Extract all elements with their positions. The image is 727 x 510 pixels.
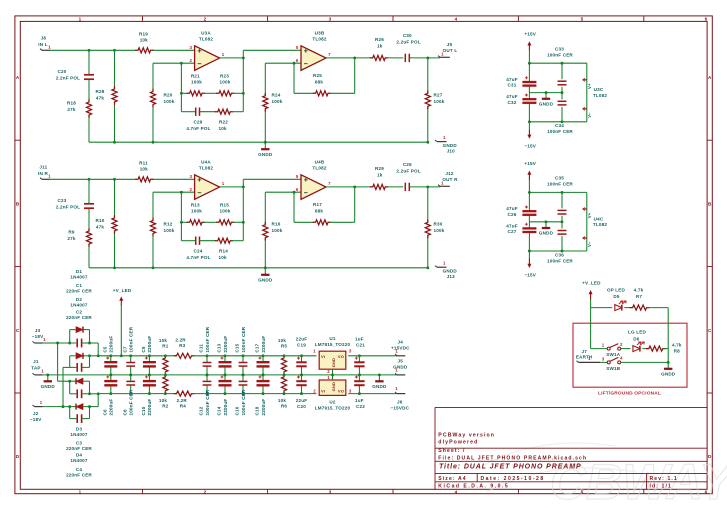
- svg-text:2.2uF POL: 2.2uF POL: [396, 169, 420, 174]
- svg-text:C36: C36: [555, 252, 564, 257]
- svg-text:C14: C14: [217, 406, 222, 415]
- svg-text:100k: 100k: [272, 228, 283, 233]
- svg-text:100nF CER: 100nF CER: [205, 326, 210, 352]
- svg-text:220nF CER: 220nF CER: [66, 315, 92, 320]
- svg-text:C1: C1: [76, 283, 82, 288]
- svg-text:GNDD: GNDD: [41, 384, 56, 389]
- svg-text:R23: R23: [220, 74, 229, 79]
- svg-text:R17: R17: [313, 202, 322, 207]
- svg-text:R16: R16: [272, 222, 281, 227]
- svg-text:2200uF: 2200uF: [261, 336, 266, 353]
- svg-text:5: 5: [296, 45, 299, 50]
- svg-text:2.2R: 2.2R: [175, 337, 186, 342]
- svg-text:TL082: TL082: [593, 93, 607, 98]
- svg-text:R14: R14: [219, 249, 228, 254]
- svg-text:U3B: U3B: [315, 30, 325, 35]
- svg-text:J3: J3: [35, 328, 41, 333]
- svg-text:100k: 100k: [164, 99, 175, 104]
- svg-text:4.7nF POL: 4.7nF POL: [186, 255, 210, 260]
- svg-text:+15V: +15V: [524, 32, 536, 37]
- svg-text:100k: 100k: [434, 99, 445, 104]
- svg-text:100nF CER: 100nF CER: [547, 182, 573, 187]
- svg-text:4: 4: [455, 490, 458, 495]
- svg-text:7: 7: [328, 52, 331, 57]
- svg-text:100nF CER: 100nF CER: [129, 389, 134, 415]
- svg-text:3: 3: [189, 174, 192, 179]
- svg-text:4.7nF POL: 4.7nF POL: [186, 126, 210, 131]
- svg-text:J10: J10: [447, 148, 455, 153]
- svg-text:GNDD: GNDD: [258, 277, 273, 282]
- svg-text:1uF: 1uF: [355, 398, 364, 403]
- svg-text:C9: C9: [141, 346, 146, 352]
- svg-text:C29: C29: [194, 120, 203, 125]
- svg-text:V−: V−: [587, 112, 592, 118]
- svg-text:J9: J9: [447, 42, 453, 47]
- svg-text:U3A: U3A: [201, 30, 211, 35]
- svg-text:IN L: IN L: [38, 42, 47, 47]
- svg-text:C8: C8: [122, 409, 127, 415]
- svg-text:C6: C6: [102, 409, 107, 415]
- svg-text:LG LED: LG LED: [628, 330, 646, 335]
- svg-text:−18V: −18V: [30, 417, 42, 422]
- svg-text:47uF: 47uF: [506, 223, 517, 228]
- svg-text:1: 1: [79, 16, 82, 21]
- svg-text:J5: J5: [398, 359, 404, 364]
- svg-text:100nF CER: 100nF CER: [547, 52, 573, 57]
- svg-text:C13: C13: [217, 343, 222, 352]
- svg-text:C: C: [708, 328, 712, 333]
- svg-text:D6: D6: [633, 336, 639, 341]
- svg-text:VI: VI: [321, 354, 325, 359]
- svg-text:3: 3: [329, 16, 332, 21]
- svg-text:R29: R29: [375, 166, 384, 171]
- svg-text:R7: R7: [636, 294, 642, 299]
- svg-text:R5: R5: [281, 344, 287, 349]
- svg-text:3: 3: [602, 356, 605, 361]
- svg-text:J7: J7: [581, 349, 587, 354]
- svg-text:2200uF: 2200uF: [109, 336, 114, 353]
- svg-text:10k: 10k: [140, 38, 148, 43]
- svg-text:C4: C4: [76, 467, 82, 472]
- svg-text:47k: 47k: [96, 96, 104, 101]
- svg-text:J2: J2: [33, 411, 39, 416]
- svg-text:GNDD: GNDD: [539, 101, 554, 106]
- svg-text:1: 1: [588, 356, 591, 361]
- svg-text:Rev: 1.1: Rev: 1.1: [650, 476, 678, 482]
- svg-text:U1: U1: [329, 336, 335, 341]
- svg-text:R10: R10: [96, 218, 105, 223]
- svg-text:3: 3: [349, 349, 352, 354]
- svg-text:R8: R8: [674, 348, 680, 353]
- svg-text:VI: VI: [321, 388, 325, 393]
- svg-text:OP LED: OP LED: [607, 288, 626, 293]
- svg-text:J13: J13: [447, 274, 455, 279]
- svg-text:R26: R26: [375, 37, 384, 42]
- svg-text:47k: 47k: [96, 225, 104, 230]
- svg-text:100nF CER: 100nF CER: [547, 129, 573, 134]
- svg-text:22uF: 22uF: [296, 398, 307, 403]
- svg-text:2: 2: [204, 16, 207, 21]
- svg-text:V−: V−: [587, 241, 592, 247]
- svg-text:SW1A: SW1A: [606, 352, 620, 357]
- svg-text:R13: R13: [191, 203, 200, 208]
- svg-text:R1: R1: [162, 344, 168, 349]
- svg-text:C23: C23: [58, 198, 67, 203]
- svg-text:C12: C12: [199, 406, 204, 415]
- svg-text:1: 1: [79, 490, 82, 495]
- svg-text:J1: J1: [33, 359, 39, 364]
- svg-text:C: C: [16, 328, 20, 333]
- svg-text:File: DUAL JFET PHONO PREAMP.k: File: DUAL JFET PHONO PREAMP.kicad.sch: [438, 455, 587, 461]
- svg-text:1: 1: [40, 400, 43, 405]
- svg-text:GND: GND: [331, 382, 336, 391]
- svg-text:+V_LED: +V_LED: [113, 288, 132, 293]
- svg-text:100nF CER: 100nF CER: [205, 389, 210, 415]
- svg-text:J6: J6: [397, 399, 403, 404]
- svg-text:VO: VO: [338, 354, 344, 359]
- svg-text:R15: R15: [220, 203, 229, 208]
- svg-text:VO: VO: [338, 388, 344, 393]
- svg-text:+15V: +15V: [524, 161, 536, 166]
- svg-text:Sheet: /: Sheet: /: [438, 448, 465, 454]
- svg-text:22uF: 22uF: [296, 337, 307, 342]
- svg-text:5: 5: [581, 16, 584, 21]
- svg-text:6: 6: [296, 58, 299, 63]
- svg-text:R19: R19: [139, 32, 148, 37]
- svg-text:4.7k: 4.7k: [634, 288, 644, 293]
- svg-text:SW1B: SW1B: [606, 366, 620, 371]
- svg-text:C16: C16: [235, 406, 240, 415]
- svg-text:10k: 10k: [218, 255, 226, 260]
- svg-text:100k: 100k: [220, 80, 231, 85]
- svg-text:4: 4: [620, 356, 623, 361]
- svg-text:1: 1: [222, 52, 225, 57]
- svg-text:1k: 1k: [377, 173, 383, 178]
- svg-text:68k: 68k: [315, 208, 323, 213]
- svg-text:D5: D5: [613, 294, 619, 299]
- svg-text:TAP: TAP: [31, 365, 40, 370]
- svg-text:1: 1: [602, 343, 605, 348]
- svg-text:A: A: [708, 75, 712, 80]
- svg-text:R27: R27: [434, 93, 443, 98]
- svg-text:1: 1: [327, 375, 330, 380]
- svg-text:OUT R: OUT R: [442, 177, 458, 182]
- svg-text:C35: C35: [555, 176, 564, 181]
- svg-text:1: 1: [443, 261, 446, 266]
- svg-text:100nF CER: 100nF CER: [241, 389, 246, 415]
- svg-text:2.2uF POL: 2.2uF POL: [396, 40, 420, 45]
- svg-text:2.2R: 2.2R: [176, 398, 187, 403]
- svg-text:100k: 100k: [220, 209, 231, 214]
- svg-text:2200uF: 2200uF: [223, 399, 228, 416]
- svg-text:C26: C26: [508, 212, 517, 217]
- svg-text:7: 7: [328, 181, 331, 186]
- svg-text:4.7k: 4.7k: [672, 343, 682, 348]
- svg-text:GNDD: GNDD: [539, 231, 554, 236]
- svg-text:1: 1: [222, 181, 225, 186]
- svg-text:2200uF: 2200uF: [223, 336, 228, 353]
- svg-text:R20: R20: [164, 93, 173, 98]
- svg-text:B: B: [708, 201, 712, 206]
- svg-text:100nF CER: 100nF CER: [241, 326, 246, 352]
- svg-text:D3: D3: [76, 427, 82, 432]
- svg-text:GNDD: GNDD: [443, 268, 458, 273]
- svg-text:C17: C17: [255, 343, 260, 352]
- svg-text:R9: R9: [68, 230, 74, 235]
- svg-text:C10: C10: [141, 406, 146, 415]
- svg-text:TL082: TL082: [312, 166, 326, 171]
- svg-text:1N4007: 1N4007: [70, 303, 87, 308]
- svg-text:A: A: [16, 75, 20, 80]
- svg-text:1: 1: [443, 135, 446, 140]
- svg-text:TL082: TL082: [312, 37, 326, 42]
- svg-text:GND: GND: [331, 358, 336, 367]
- svg-text:U2: U2: [329, 400, 335, 405]
- svg-text:U3C: U3C: [594, 87, 604, 92]
- svg-text:1: 1: [48, 44, 51, 49]
- svg-text:R25: R25: [313, 73, 322, 78]
- svg-text:1: 1: [43, 337, 46, 342]
- svg-text:U4A: U4A: [201, 159, 211, 164]
- svg-text:10k: 10k: [140, 167, 148, 172]
- svg-text:2200uF: 2200uF: [147, 399, 152, 416]
- svg-text:B: B: [16, 201, 20, 206]
- svg-text:Date: 2025-10-28: Date: 2025-10-28: [481, 476, 545, 482]
- svg-text:R21: R21: [191, 74, 200, 79]
- svg-text:100nF CER: 100nF CER: [547, 258, 573, 263]
- svg-text:Size: A4: Size: A4: [438, 476, 466, 482]
- svg-text:2200uF: 2200uF: [109, 399, 114, 416]
- svg-text:47uF: 47uF: [506, 206, 517, 211]
- svg-text:100k: 100k: [164, 228, 175, 233]
- svg-text:C19: C19: [297, 343, 306, 348]
- svg-text:R22: R22: [219, 120, 228, 125]
- svg-text:−15V: −15V: [524, 273, 536, 278]
- svg-text:LIFT/GROUND OPCIONAL: LIFT/GROUND OPCIONAL: [598, 391, 661, 397]
- svg-text:100k: 100k: [434, 228, 445, 233]
- svg-text:V+: V+: [587, 83, 592, 89]
- svg-text:1uF: 1uF: [355, 337, 364, 342]
- svg-text:C31: C31: [508, 83, 517, 88]
- svg-text:D: D: [708, 454, 712, 459]
- svg-text:J4: J4: [398, 340, 404, 345]
- svg-text:1: 1: [41, 369, 44, 374]
- svg-text:C21: C21: [356, 343, 365, 348]
- svg-text:R2: R2: [162, 404, 168, 409]
- svg-text:TL082: TL082: [199, 166, 213, 171]
- svg-text:C33: C33: [555, 46, 564, 51]
- svg-text:R18: R18: [67, 101, 76, 106]
- svg-text:C2: C2: [76, 309, 82, 314]
- svg-text:−15VDC: −15VDC: [391, 405, 410, 410]
- svg-text:GNDD: GNDD: [393, 365, 408, 370]
- svg-text:27k: 27k: [67, 236, 75, 241]
- svg-text:4: 4: [455, 16, 458, 21]
- svg-text:100k: 100k: [191, 80, 202, 85]
- svg-text:LM7815_TO220: LM7815_TO220: [315, 342, 351, 347]
- svg-text:R6: R6: [281, 404, 287, 409]
- svg-text:5: 5: [581, 490, 584, 495]
- svg-text:C3: C3: [76, 440, 82, 445]
- svg-text:D4: D4: [76, 453, 82, 458]
- svg-text:C7: C7: [122, 346, 127, 352]
- svg-text:10k: 10k: [278, 398, 286, 403]
- svg-text:U4B: U4B: [315, 159, 325, 164]
- svg-text:100k: 100k: [191, 209, 202, 214]
- svg-text:V+: V+: [587, 212, 592, 218]
- svg-text:3: 3: [349, 389, 352, 394]
- svg-text:68k: 68k: [315, 79, 323, 84]
- svg-text:10k: 10k: [159, 338, 167, 343]
- svg-text:1N4007: 1N4007: [70, 458, 87, 463]
- svg-text:C32: C32: [508, 100, 517, 105]
- svg-text:R3: R3: [179, 343, 185, 348]
- svg-text:100nF CER: 100nF CER: [129, 326, 134, 352]
- svg-text:dIyPowered: dIyPowered: [438, 440, 478, 446]
- svg-text:5: 5: [296, 174, 299, 179]
- svg-text:KiCad E.D.A. 9.0.5: KiCad E.D.A. 9.0.5: [438, 484, 509, 490]
- svg-text:R24: R24: [272, 93, 281, 98]
- svg-text:−18V: −18V: [32, 334, 44, 339]
- svg-text:D2: D2: [76, 297, 82, 302]
- svg-text:GNDD: GNDD: [258, 152, 273, 157]
- svg-text:C11: C11: [199, 344, 204, 353]
- svg-text:R28: R28: [96, 89, 105, 94]
- svg-text:C15: C15: [235, 343, 240, 352]
- svg-text:2: 2: [327, 369, 330, 374]
- svg-text:2200uF: 2200uF: [147, 336, 152, 353]
- svg-text:220nF CER: 220nF CER: [66, 288, 92, 293]
- svg-text:LM7915_TO220: LM7915_TO220: [315, 406, 351, 411]
- svg-text:D: D: [16, 454, 20, 459]
- svg-text:2.2nF POL: 2.2nF POL: [56, 205, 80, 210]
- svg-text:U4C: U4C: [594, 216, 604, 221]
- svg-text:J12: J12: [445, 171, 453, 176]
- svg-text:Id: 1/1: Id: 1/1: [650, 484, 672, 490]
- svg-text:2: 2: [189, 187, 192, 192]
- svg-text:2200uF: 2200uF: [261, 399, 266, 416]
- svg-text:C22: C22: [356, 404, 365, 409]
- svg-text:J11: J11: [39, 164, 47, 169]
- svg-text:GNDD: GNDD: [372, 384, 387, 389]
- svg-text:C30: C30: [403, 33, 412, 38]
- svg-text:47uF: 47uF: [506, 77, 517, 82]
- svg-text:PCBWay version: PCBWay version: [438, 433, 495, 439]
- svg-text:1: 1: [395, 386, 398, 391]
- svg-text:R4: R4: [180, 403, 186, 408]
- svg-text:GNDD: GNDD: [661, 371, 676, 376]
- svg-text:IN R: IN R: [38, 171, 48, 176]
- svg-text:R11: R11: [139, 161, 148, 166]
- svg-text:Title: DUAL JFET PHONO PREAMP: Title: DUAL JFET PHONO PREAMP: [439, 463, 582, 470]
- svg-text:1k: 1k: [377, 44, 383, 49]
- svg-text:D1: D1: [76, 269, 82, 274]
- svg-text:2.2nF POL: 2.2nF POL: [56, 76, 80, 81]
- svg-text:C25: C25: [403, 162, 412, 167]
- svg-text:47uF: 47uF: [506, 94, 517, 99]
- svg-text:10k: 10k: [218, 126, 226, 131]
- svg-text:10k: 10k: [159, 398, 167, 403]
- svg-text:2: 2: [620, 342, 623, 347]
- svg-text:2: 2: [313, 389, 316, 394]
- svg-text:C18: C18: [255, 406, 260, 415]
- svg-text:R30: R30: [434, 222, 443, 227]
- svg-text:C20: C20: [58, 69, 67, 74]
- svg-text:1: 1: [313, 349, 316, 354]
- svg-text:2: 2: [189, 58, 192, 63]
- svg-text:R12: R12: [164, 222, 173, 227]
- svg-text:1: 1: [48, 173, 51, 178]
- svg-text:J8: J8: [41, 35, 47, 40]
- svg-text:C27: C27: [508, 229, 517, 234]
- svg-text:3: 3: [189, 45, 192, 50]
- svg-text:10k: 10k: [278, 338, 286, 343]
- svg-text:6: 6: [705, 490, 708, 495]
- svg-text:2: 2: [204, 490, 207, 495]
- svg-text:1N4007: 1N4007: [70, 274, 87, 279]
- svg-text:220nF CER: 220nF CER: [66, 446, 92, 451]
- svg-text:220nF CER: 220nF CER: [66, 473, 92, 478]
- svg-text:C34: C34: [555, 123, 564, 128]
- svg-text:C24: C24: [194, 249, 203, 254]
- svg-text:C5: C5: [102, 346, 107, 352]
- svg-text:GNDD: GNDD: [443, 143, 458, 148]
- svg-text:27k: 27k: [67, 107, 75, 112]
- svg-text:TL082: TL082: [199, 37, 213, 42]
- svg-text:−15V: −15V: [524, 143, 536, 148]
- svg-text:C20: C20: [297, 404, 306, 409]
- svg-text:TL082: TL082: [593, 222, 607, 227]
- svg-text:6: 6: [705, 16, 708, 21]
- svg-text:6: 6: [296, 187, 299, 192]
- svg-text:100k: 100k: [272, 99, 283, 104]
- svg-text:OUT L: OUT L: [443, 48, 458, 53]
- svg-text:+V_LED: +V_LED: [582, 280, 601, 285]
- svg-text:1N4007: 1N4007: [70, 432, 87, 437]
- svg-text:+15VDC: +15VDC: [391, 346, 410, 351]
- svg-text:3: 3: [329, 490, 332, 495]
